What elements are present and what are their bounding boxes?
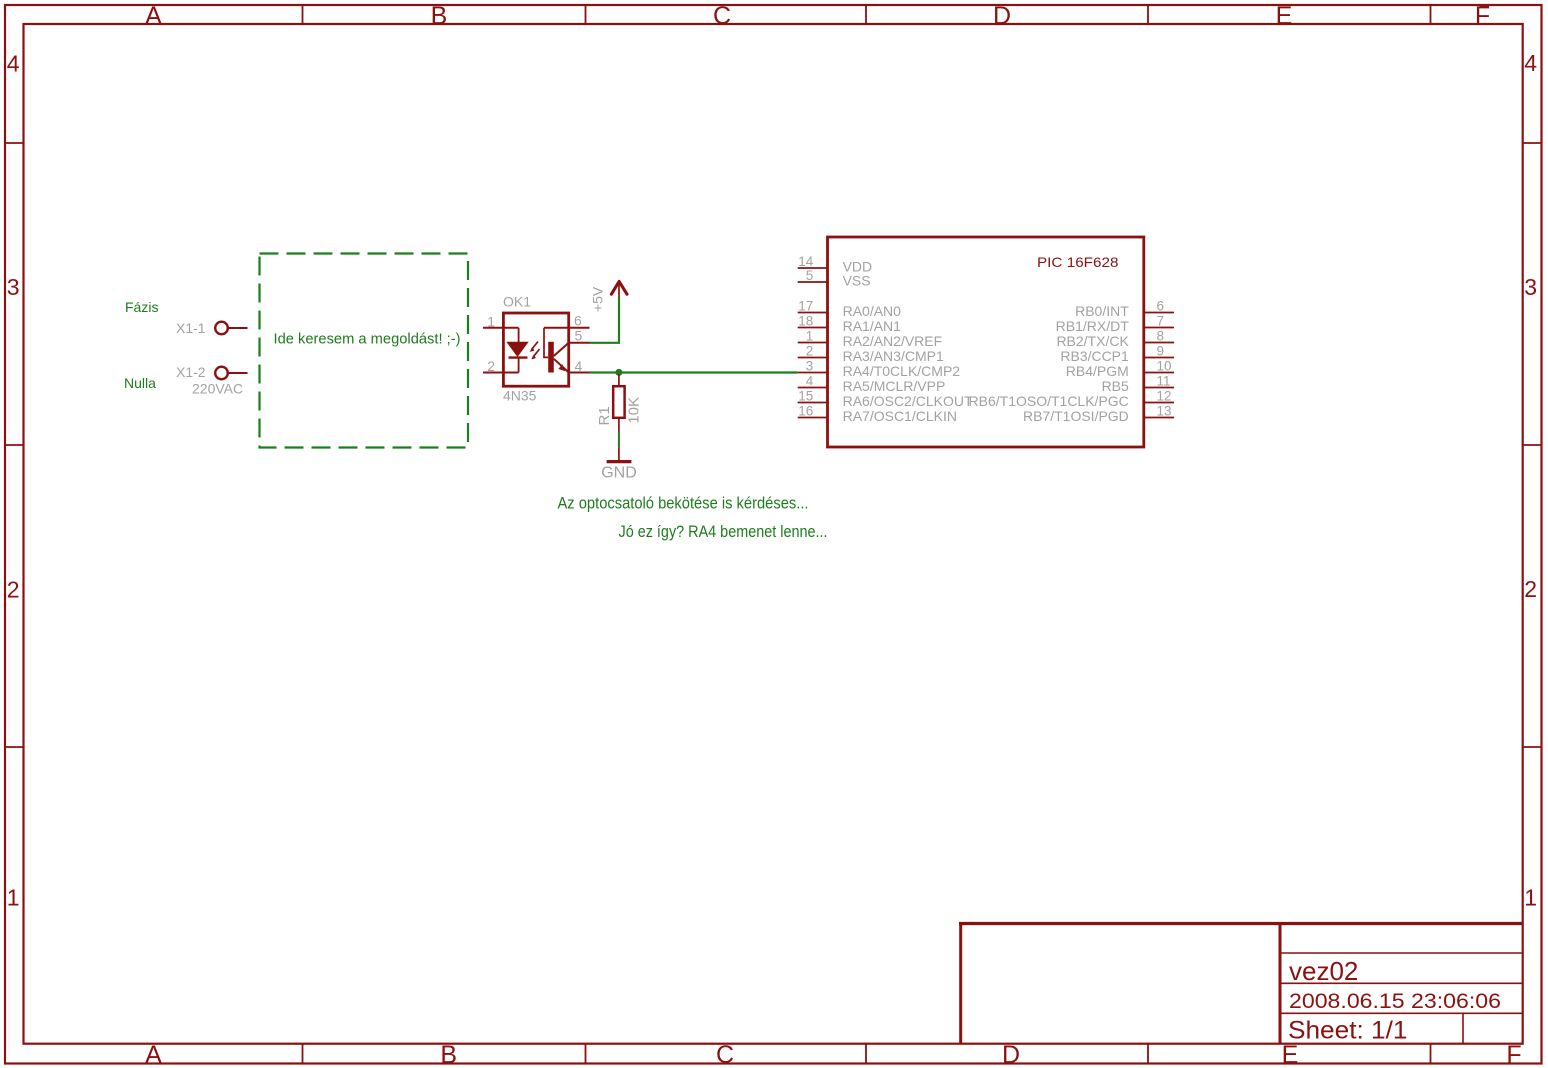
svg-text:2: 2 (487, 358, 495, 374)
svg-text:1: 1 (7, 885, 20, 911)
svg-text:Ide keresem a megoldást! ;-): Ide keresem a megoldást! ;-) (274, 331, 461, 348)
IC right pins (1144, 313, 1174, 418)
svg-text:Jó ez így? RA4 bemenet lenne..: Jó ez így? RA4 bemenet lenne... (619, 522, 828, 541)
terminal X1-1 (215, 322, 247, 335)
svg-text:A: A (145, 1041, 162, 1068)
svg-text:X1-2: X1-2 (176, 364, 206, 380)
svg-text:VSS: VSS (843, 273, 871, 289)
svg-text:4: 4 (7, 51, 20, 77)
pin 4 (569, 372, 590, 374)
frame row ticks left (5, 143, 24, 747)
LED cathode bar (509, 356, 528, 358)
svg-text:10: 10 (1157, 359, 1172, 374)
+5V supply arrow (611, 281, 627, 294)
IC left pin numbers (798, 254, 814, 419)
LED cathode lead (518, 358, 520, 373)
pin 5 (569, 342, 590, 344)
svg-text:16: 16 (798, 404, 813, 419)
frame row numbers left (7, 51, 20, 911)
photon arrow 2 (531, 349, 539, 359)
svg-text:10K: 10K (625, 397, 642, 424)
svg-text:RA3/AN3/CMP1: RA3/AN3/CMP1 (843, 348, 944, 364)
resistor R1 bottom lead (618, 418, 620, 432)
svg-text:11: 11 (1157, 374, 1171, 389)
svg-text:RB4/PGM: RB4/PGM (1066, 363, 1129, 379)
svg-text:RA0/AN0: RA0/AN0 (843, 303, 902, 319)
svg-text:9: 9 (1157, 344, 1165, 359)
svg-text:RB0/INT: RB0/INT (1075, 303, 1129, 319)
svg-text:A: A (145, 2, 162, 30)
photo-transistor base bar (548, 342, 554, 373)
svg-text:RA2/AN2/VREF: RA2/AN2/VREF (843, 333, 943, 349)
svg-text:vez02: vez02 (1289, 956, 1358, 986)
svg-text:17: 17 (798, 299, 813, 314)
terminal X1-2 (215, 367, 247, 380)
svg-text:PIC 16F628: PIC 16F628 (1037, 254, 1119, 270)
svg-text:E: E (1276, 2, 1293, 30)
svg-text:4: 4 (575, 358, 583, 374)
svg-text:OK1: OK1 (503, 294, 531, 310)
frame column letters top (145, 2, 1490, 30)
svg-text:6: 6 (1157, 299, 1165, 314)
pin 6 (544, 327, 590, 329)
wire pin 4 to RA4 (590, 371, 798, 373)
frame row ticks right (1523, 143, 1542, 747)
svg-text:RA1/AN1: RA1/AN1 (843, 318, 902, 334)
LED triangle (507, 342, 527, 356)
svg-text:RA6/OSC2/CLKOUT: RA6/OSC2/CLKOUT (843, 393, 973, 409)
svg-text:1: 1 (487, 313, 495, 329)
photo-transistor base connection (544, 328, 548, 358)
svg-text:3: 3 (1524, 274, 1537, 300)
junction node (615, 369, 622, 376)
svg-text:12: 12 (1157, 389, 1172, 404)
svg-text:4: 4 (806, 374, 814, 389)
GND pin (618, 447, 620, 460)
svg-text:3: 3 (7, 274, 20, 300)
svg-text:13: 13 (1157, 404, 1172, 419)
frame column ticks bottom (303, 1044, 1431, 1064)
svg-text:2: 2 (1524, 576, 1537, 602)
svg-text:Sheet: 1/1: Sheet: 1/1 (1288, 1017, 1408, 1045)
svg-text:GND: GND (601, 464, 637, 481)
IC right pin names (969, 303, 1130, 424)
ground symbol (607, 460, 632, 463)
LED anode lead (518, 328, 520, 342)
svg-text:2: 2 (7, 576, 20, 602)
svg-text:14: 14 (798, 254, 814, 269)
svg-text:5: 5 (806, 268, 814, 283)
svg-text:6: 6 (574, 313, 582, 329)
frame row numbers right (1524, 50, 1537, 911)
svg-text:3: 3 (806, 359, 814, 374)
svg-text:RB1/RX/DT: RB1/RX/DT (1056, 318, 1130, 334)
svg-text:C: C (716, 1041, 734, 1068)
svg-text:RB6/T1OSO/T1CLK/PGC: RB6/T1OSO/T1CLK/PGC (969, 393, 1129, 409)
photo-transistor collector (554, 343, 569, 356)
svg-text:Fázis: Fázis (125, 299, 158, 315)
svg-text:Az optocsatoló bekötése is kér: Az optocsatoló bekötése is kérdéses... (558, 493, 809, 512)
svg-text:C: C (713, 2, 731, 30)
svg-text:B: B (440, 1041, 457, 1068)
wire +5V to pin 5 (590, 297, 620, 343)
pin 1 (483, 327, 519, 329)
svg-text:D: D (1002, 1041, 1020, 1068)
svg-text:RB3/CCP1: RB3/CCP1 (1060, 348, 1129, 364)
IC left pins (798, 268, 828, 418)
IC left pin names (843, 259, 973, 425)
opto-coupler OK1 body (503, 313, 568, 386)
svg-text:8: 8 (1157, 329, 1165, 344)
svg-text:F: F (1506, 1041, 1521, 1068)
svg-text:RB2/TX/CK: RB2/TX/CK (1056, 333, 1129, 349)
svg-text:1: 1 (806, 329, 814, 344)
svg-text:RA7/OSC1/CLKIN: RA7/OSC1/CLKIN (843, 408, 957, 424)
svg-text:RB7/T1OSI/PGD: RB7/T1OSI/PGD (1023, 408, 1129, 424)
svg-text:2008.06.15 23:06:06: 2008.06.15 23:06:06 (1289, 990, 1501, 1013)
IC right pin numbers (1157, 299, 1172, 419)
svg-text:E: E (1282, 1041, 1299, 1068)
svg-text:4: 4 (1524, 50, 1537, 76)
svg-text:220VAC: 220VAC (192, 381, 243, 397)
svg-text:18: 18 (798, 314, 813, 329)
svg-text:2: 2 (806, 344, 814, 359)
photon arrow 1 (530, 342, 538, 352)
svg-text:RB5: RB5 (1102, 378, 1129, 394)
IC U1 PIC16F628 body (828, 237, 1144, 447)
annotation dashed box (260, 254, 469, 448)
svg-text:Nulla: Nulla (124, 375, 156, 391)
svg-text:4N35: 4N35 (503, 388, 537, 404)
svg-text:1: 1 (1524, 885, 1537, 911)
svg-text:F: F (1475, 2, 1490, 30)
svg-text:RA5/MCLR/VPP: RA5/MCLR/VPP (843, 378, 946, 394)
resistor R1 body (613, 386, 624, 418)
svg-text:X1-1: X1-1 (176, 320, 206, 336)
svg-text:R1: R1 (596, 406, 613, 425)
title block outline (959, 922, 1522, 1044)
svg-text:RA4/T0CLK/CMP2: RA4/T0CLK/CMP2 (843, 363, 961, 379)
+5V pin (618, 284, 620, 298)
svg-text:+5V: +5V (590, 286, 606, 312)
svg-text:5: 5 (575, 328, 583, 344)
pin 2 (483, 372, 519, 374)
wire R1 to GND (618, 432, 620, 447)
frame fold mark near F (1480, 5, 1489, 9)
frame column ticks top (303, 5, 1431, 24)
svg-text:7: 7 (1157, 314, 1165, 329)
svg-text:B: B (431, 2, 448, 30)
svg-text:15: 15 (798, 389, 813, 404)
frame column letters bottom (145, 1041, 1521, 1068)
resistor R1 top lead (618, 374, 620, 386)
photo-transistor emitter (554, 359, 569, 373)
svg-text:D: D (993, 2, 1011, 30)
